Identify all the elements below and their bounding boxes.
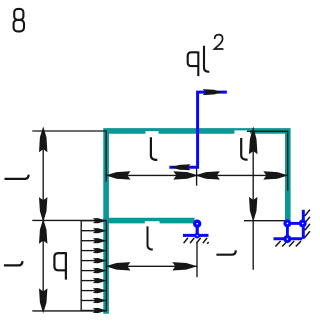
extension line below roller <box>196 243 198 278</box>
label ql2 : superscript 2 <box>214 35 223 49</box>
arrow top of right vertical dim <box>249 126 258 154</box>
roller support pin circle <box>193 220 201 228</box>
arrow bottom of left vertical dim <box>39 288 47 313</box>
arrow middle-down of left vertical dim <box>39 197 47 222</box>
label l (middle member span) <box>148 226 153 249</box>
distributed load right boundary over column <box>105 221 107 311</box>
white notch under label l (middle member) <box>145 221 160 224</box>
dimension line vertical left l+l <box>42 130 44 310</box>
extension line bottom left <box>32 310 106 312</box>
right support pin C <box>283 235 291 243</box>
roller support ground bar <box>183 234 209 237</box>
roller support stem <box>196 224 199 236</box>
label 8 (task number) <box>14 9 24 32</box>
extension line middle left <box>32 219 106 221</box>
white notch under label l (top beam left) <box>146 131 159 135</box>
label l rotated (lower left height) <box>4 261 23 265</box>
extension tick at center of top dimension <box>196 168 198 186</box>
arrow left end of bottom dim <box>106 262 131 270</box>
hatching under right support ground <box>275 241 301 247</box>
label q (distributed load) <box>54 252 66 280</box>
hatching on right support wall <box>305 210 310 238</box>
label ql2 : q glyph <box>188 52 199 77</box>
extension line top-left <box>32 130 106 132</box>
arrow right end of bottom dim <box>172 262 197 270</box>
right support pin B <box>299 219 307 227</box>
dimension line bottom middle l <box>106 265 197 267</box>
right support wall line <box>302 210 305 239</box>
hatching under roller support <box>184 238 209 244</box>
label l (right column height) <box>241 138 247 160</box>
extension line left column centerline <box>105 131 107 182</box>
arrow top of left vertical dim <box>39 126 47 152</box>
white notch under label l (top beam right) <box>234 130 250 134</box>
dimension line horizontal l+l <box>106 174 288 176</box>
right support link A-C <box>286 223 289 239</box>
dimension arrowheads <box>39 126 288 313</box>
frame member (teal polyline: left column, top beam, right column) <box>106 131 288 314</box>
arrow right end of horizontal dim <box>263 171 288 179</box>
arrow middle-up of left vertical dim <box>39 219 47 244</box>
moment top arrowhead <box>203 89 223 95</box>
label ql2 : l glyph <box>204 46 209 72</box>
label l rotated (upper left height) <box>5 175 29 179</box>
roller support lower circle <box>194 233 200 239</box>
right support ground bar <box>274 237 303 240</box>
label l (top span left) <box>151 137 157 160</box>
right support link A-B <box>287 222 302 225</box>
load q arrowheads <box>93 218 107 313</box>
arrow center pointing left <box>195 171 220 179</box>
dimension line vertical right l <box>252 130 254 269</box>
moment ql^2 bent line <box>169 92 227 167</box>
extension line top-right over beam <box>247 130 288 132</box>
arrow center pointing right <box>173 171 198 179</box>
arrow bottom of right vertical dim <box>249 197 257 222</box>
moment bottom arrowhead <box>170 164 190 170</box>
label l rotated (bottom middle) <box>216 250 235 254</box>
frame middle horizontal member <box>103 218 194 224</box>
extension line right column centerline <box>287 131 289 191</box>
distributed load left boundary line <box>80 221 82 311</box>
right support pin A <box>283 219 291 227</box>
extension line right support level <box>244 220 285 222</box>
load q arrow shafts <box>81 221 97 311</box>
arrow left end of horizontal dim <box>106 171 131 179</box>
